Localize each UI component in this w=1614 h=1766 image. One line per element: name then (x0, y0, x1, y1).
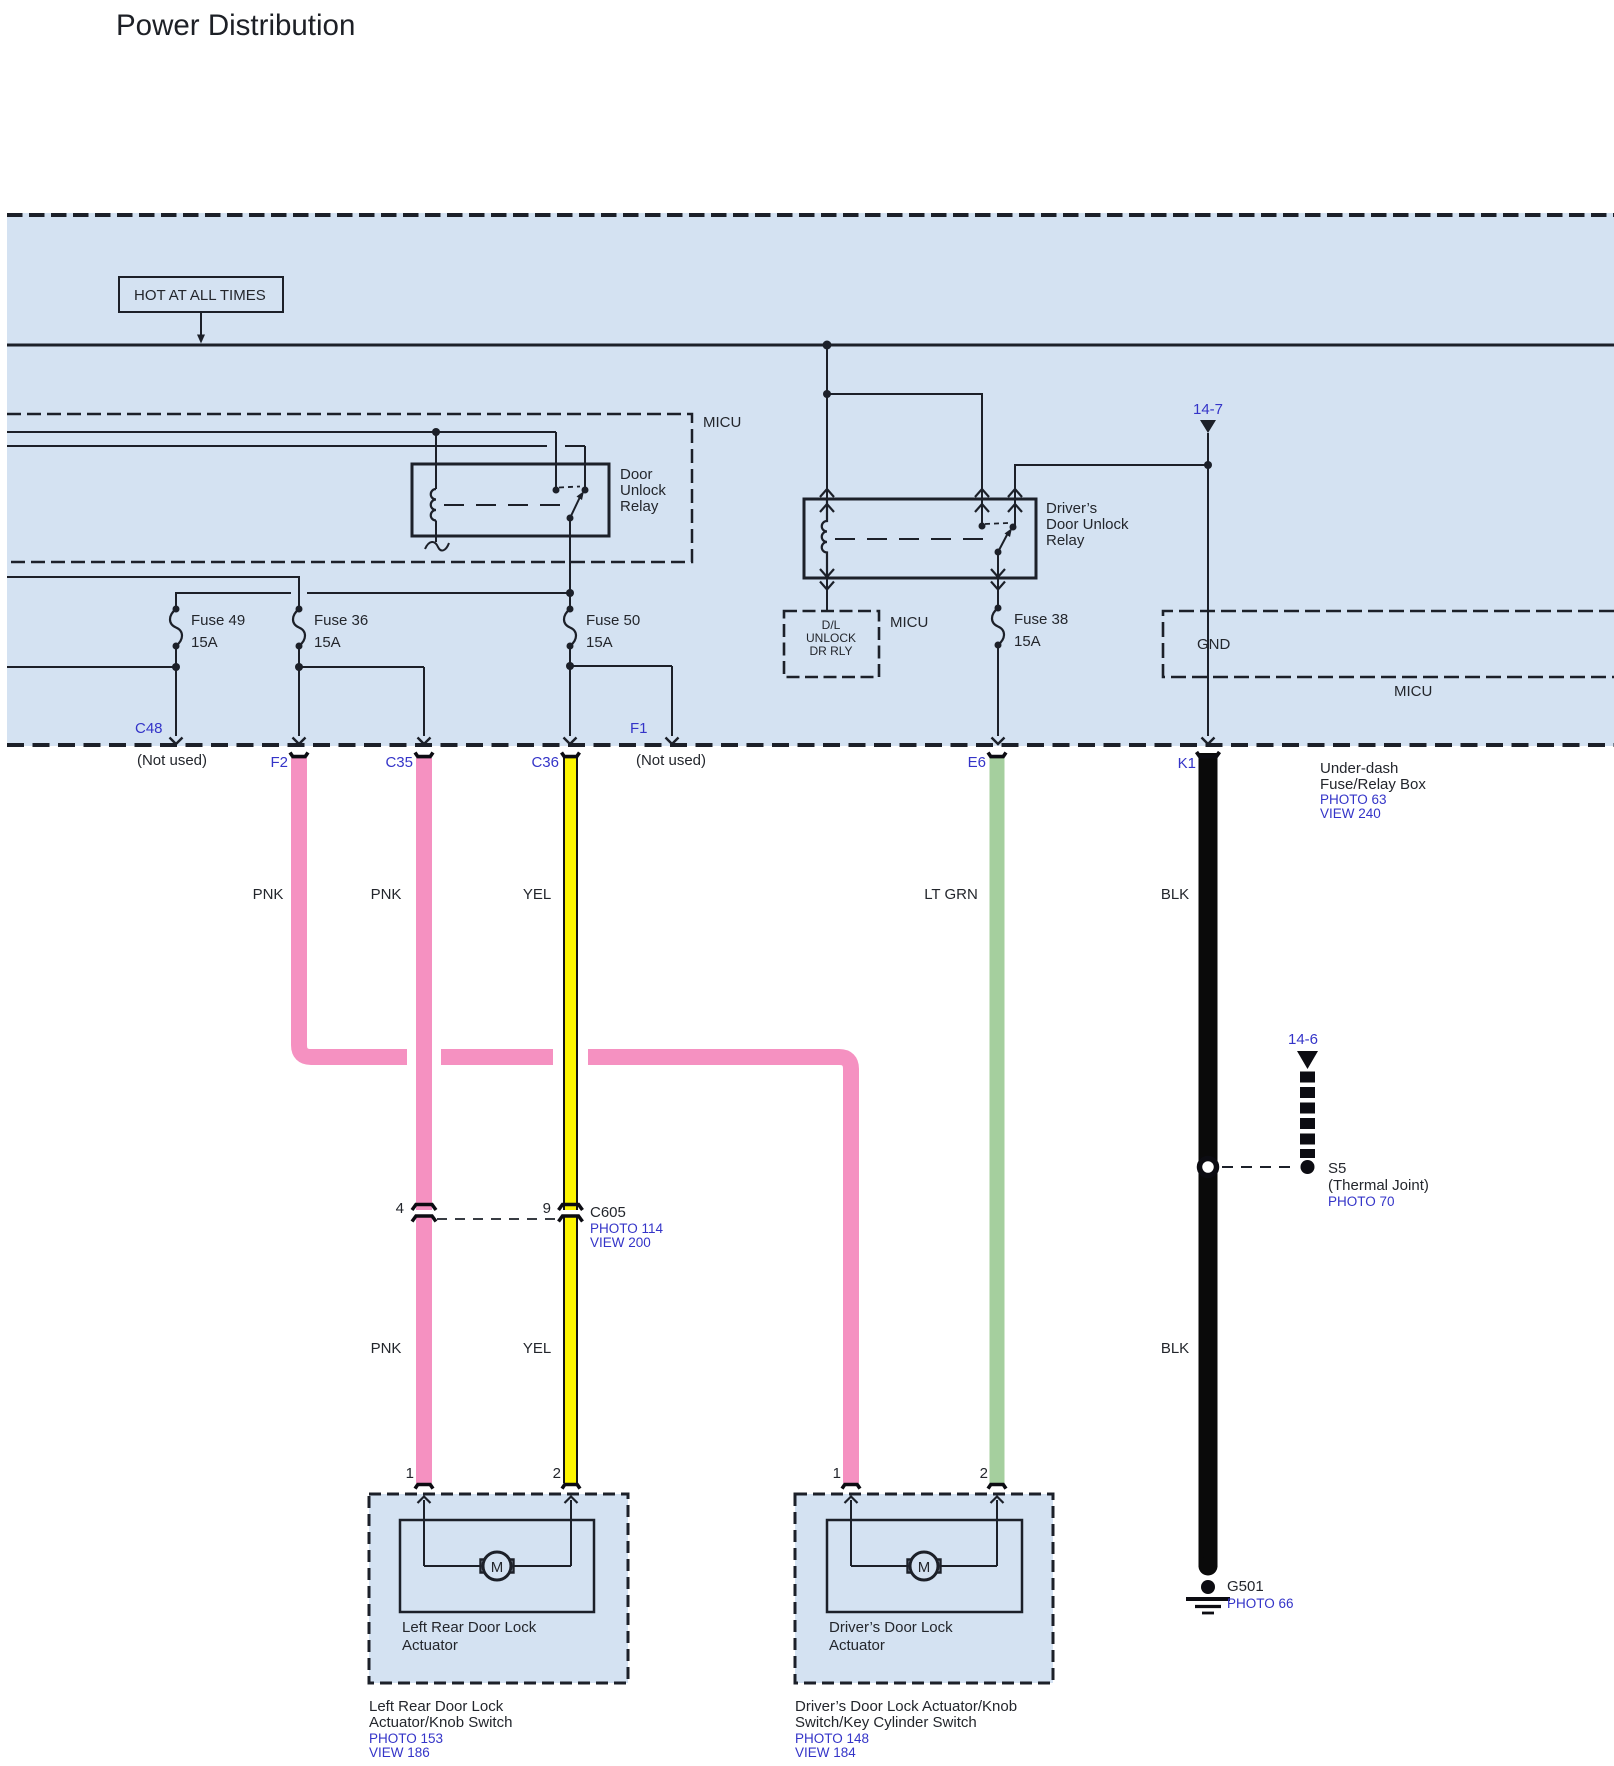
node junction 14-7/GND (1204, 461, 1212, 469)
left actuator pin1 wire (418, 1497, 482, 1567)
svg-text:PHOTO 148: PHOTO 148 (795, 1731, 869, 1746)
svg-text:Under-dash: Under-dash (1320, 760, 1398, 777)
wire down to GND (1207, 465, 1209, 677)
svg-text:PHOTO 153: PHOTO 153 (369, 1731, 443, 1746)
relay output wire down (569, 518, 571, 593)
fuse 49 F49 (170, 606, 182, 650)
svg-text:PHOTO 114: PHOTO 114 (590, 1221, 664, 1236)
svg-text:C48: C48 (135, 720, 163, 737)
svg-text:VIEW 184: VIEW 184 (795, 1745, 856, 1760)
svg-text:14-7: 14-7 (1193, 401, 1223, 418)
fuse 50 F50 (564, 606, 576, 650)
wire relay2 output to Fuse 38 (997, 578, 999, 608)
svg-text:Door Unlock: Door Unlock (1046, 516, 1129, 533)
svg-text:M: M (491, 1559, 504, 1576)
svg-text:15A: 15A (586, 634, 613, 651)
relay mechanical link (dashed) (444, 504, 566, 506)
relay2 contact left (979, 523, 986, 530)
relay2 pivot node (995, 549, 1002, 556)
right actuator caption (795, 1698, 1017, 1760)
C605 dashed link (437, 1218, 556, 1220)
svg-text:MICU: MICU (1394, 683, 1432, 700)
svg-text:Switch/Key Cylinder Switch: Switch/Key Cylinder Switch (795, 1714, 977, 1731)
switch arm arrowhead (577, 491, 585, 500)
svg-text:YEL: YEL (523, 1340, 551, 1357)
svg-text:Left Rear Door Lock: Left Rear Door Lock (402, 1619, 537, 1636)
svg-text:C36: C36 (531, 754, 559, 771)
connector C605 pink half (412, 1205, 436, 1222)
fuse 38 F38 (992, 605, 1004, 649)
relay2 switch arm (998, 533, 1008, 552)
connector cap right pin2 (988, 1485, 1006, 1489)
svg-text:C605: C605 (590, 1204, 626, 1221)
svg-text:15A: 15A (314, 634, 341, 651)
svg-text:VIEW 186: VIEW 186 (369, 1745, 430, 1760)
svg-text:C35: C35 (385, 754, 413, 771)
svg-text:Driver’s Door Lock: Driver’s Door Lock (829, 1619, 953, 1636)
Door Unlock Relay box (412, 464, 609, 536)
relay2 pin chevrons coil (820, 489, 834, 512)
Driver's Door Unlock Relay box (804, 499, 1036, 578)
wire bus to relay2 (826, 345, 828, 394)
black wire BLK from K1 (1199, 753, 1218, 1567)
svg-text:UNLOCK: UNLOCK (806, 631, 856, 645)
connector cup E6 (988, 753, 1006, 757)
svg-text:E6: E6 (968, 754, 986, 771)
svg-text:Fuse 36: Fuse 36 (314, 612, 368, 629)
wire W1 to relay contact (7, 431, 556, 433)
coil ground tail wire (435, 521, 437, 543)
svg-text:PHOTO 66: PHOTO 66 (1227, 1596, 1294, 1611)
svg-text:Actuator: Actuator (829, 1637, 885, 1654)
svg-text:15A: 15A (1014, 633, 1041, 650)
wire E6 drop (992, 645, 1005, 744)
switch pivot node (567, 515, 574, 522)
svg-text:YEL: YEL (523, 886, 551, 903)
coil tail squiggle (425, 542, 449, 551)
svg-text:PNK: PNK (371, 1340, 402, 1357)
relay2 coil (822, 500, 827, 578)
svg-text:F1: F1 (630, 720, 648, 737)
Under-dash Fuse/Relay Box caption (1320, 760, 1426, 821)
wire A feeding Fuse 36 (7, 577, 299, 609)
svg-text:S5: S5 (1328, 1160, 1346, 1177)
GND dashed box (1163, 611, 1614, 677)
svg-text:Fuse 38: Fuse 38 (1014, 611, 1068, 628)
right motor M2 (908, 1552, 941, 1580)
D/L UNLOCK DR RLY dashed box (784, 611, 879, 677)
D/L UNLOCK DR RLY label (806, 618, 856, 658)
Driver's Door Unlock Relay label (1046, 500, 1129, 549)
S5 dashed link (1222, 1166, 1294, 1168)
wire B continued to Fuse 50 (307, 592, 570, 594)
wire 14-7 to relay2 pin (1015, 465, 1208, 526)
ground G501 symbol (1186, 1599, 1230, 1613)
svg-text:Left Rear Door Lock: Left Rear Door Lock (369, 1698, 504, 1715)
svg-text:LT GRN: LT GRN (924, 886, 978, 903)
relay2 arm arrowhead (1005, 528, 1013, 537)
svg-text:Fuse/Relay Box: Fuse/Relay Box (1320, 776, 1426, 793)
relay2 throw dashed link (985, 523, 1008, 524)
connector cup C35 (415, 753, 433, 757)
connector cap right pin1 (842, 1485, 860, 1489)
left actuator pin2 wire (513, 1497, 578, 1567)
relay2 output wire (997, 552, 999, 578)
relay2 mechanical link (dashed) (835, 538, 988, 540)
wire W2 continued (565, 445, 585, 447)
arrow from HOT box to bus (197, 312, 205, 344)
pink wire PNK from C35 (to left rear actuator pin 1) (416, 758, 432, 1483)
connector cap left pin2 (562, 1485, 580, 1489)
svg-text:1: 1 (406, 1465, 414, 1482)
svg-text:2: 2 (980, 1465, 988, 1482)
relay2 pin chevrons contact1 (975, 489, 989, 512)
Door Unlock Relay label (620, 466, 666, 515)
wire W1 vertical drop (555, 432, 557, 490)
svg-text:VIEW 200: VIEW 200 (590, 1235, 651, 1250)
pink wire PNK from F2 (to driver's actuator pin 1) (299, 758, 851, 1483)
relay2 pin chevrons contact2 (1008, 489, 1022, 512)
svg-text:Unlock: Unlock (620, 482, 666, 499)
wire K1 drop (1207, 677, 1209, 736)
node junction below Fuse 36 (295, 663, 303, 671)
wire C36 below Fuse 50 (564, 646, 577, 744)
svg-text:9: 9 (543, 1200, 551, 1217)
14-6 ladder wire (1300, 1072, 1315, 1159)
wire W2 to relay contact (7, 445, 547, 447)
svg-text:HOT AT ALL TIMES: HOT AT ALL TIMES (134, 287, 266, 304)
relay2 contact right (1010, 524, 1017, 531)
svg-text:BLK: BLK (1161, 1340, 1189, 1357)
ground G501 dot (1201, 1580, 1215, 1594)
svg-text:2: 2 (553, 1465, 561, 1482)
wire E to F1 (570, 666, 679, 744)
right actuator name in box (829, 1619, 953, 1654)
right actuator pin1 wire (845, 1497, 909, 1567)
14-7 page connector triangle (1200, 420, 1216, 433)
svg-text:(Thermal Joint): (Thermal Joint) (1328, 1177, 1429, 1194)
wire C48 branch (7, 646, 183, 744)
svg-text:Actuator/Knob Switch: Actuator/Knob Switch (369, 1714, 512, 1731)
node junction bus/relay2 (823, 341, 832, 350)
left actuator inner box (400, 1520, 594, 1612)
left actuator caption (369, 1698, 512, 1760)
svg-text:MICU: MICU (703, 414, 741, 431)
left motor M1 (481, 1552, 514, 1580)
svg-text:Relay: Relay (1046, 532, 1085, 549)
fuse box bottom dashed border (7, 743, 1614, 747)
MICU dashed box (left) (7, 414, 692, 562)
wire from 14-7 (1207, 433, 1209, 465)
wire coil to D/L box (826, 578, 828, 611)
svg-text:(Not used): (Not used) (636, 752, 706, 769)
connector cup C36 (562, 753, 580, 757)
svg-text:1: 1 (833, 1465, 841, 1482)
wire W2 vertical drop (584, 446, 586, 490)
wire relay2 coil pin (826, 394, 828, 500)
svg-text:(Not used): (Not used) (137, 752, 207, 769)
svg-text:PHOTO 70: PHOTO 70 (1328, 1194, 1395, 1209)
connector C605 yellow half (559, 1205, 583, 1222)
relay coil (431, 489, 436, 521)
svg-text:Door: Door (620, 466, 653, 483)
svg-text:PNK: PNK (371, 886, 402, 903)
svg-text:4: 4 (396, 1200, 404, 1217)
wire F2 branch from Fuse 36 (293, 646, 306, 744)
svg-text:M: M (918, 1559, 931, 1576)
svg-text:GND: GND (1197, 636, 1231, 653)
wire B Fuse49 top branch (176, 593, 291, 609)
yellow wire YEL from C36 outline (563, 758, 578, 1483)
HOT AT ALL TIMES label box (119, 277, 283, 312)
fuse box top dashed border (7, 213, 1614, 217)
yellow wire YEL fill (565, 758, 576, 1483)
svg-text:K1: K1 (1178, 755, 1196, 772)
svg-text:DR RLY: DR RLY (809, 644, 852, 658)
green wire LT GRN from E6 (990, 758, 1005, 1483)
relay2 bottom chevrons coil (820, 569, 834, 590)
svg-text:G501: G501 (1227, 1578, 1264, 1595)
connector cup F2 (290, 753, 308, 757)
relay contact right (582, 487, 589, 494)
relay coil feed wire (435, 432, 437, 489)
contact throw dashed link (559, 487, 580, 488)
connector cup K1 (1197, 752, 1220, 757)
relay2 bottom chevrons output (991, 569, 1005, 590)
relay contact left (553, 487, 560, 494)
S5 junction dot (1301, 1160, 1315, 1174)
node above Fuse 50 (566, 589, 574, 597)
svg-text:Driver’s: Driver’s (1046, 500, 1097, 517)
svg-text:D/L: D/L (822, 618, 841, 632)
svg-text:Actuator: Actuator (402, 1637, 458, 1654)
node junction below Fuse 50 (566, 662, 574, 670)
svg-text:PHOTO 63: PHOTO 63 (1320, 792, 1387, 807)
svg-text:Fuse 50: Fuse 50 (586, 612, 640, 629)
svg-text:Power Distribution: Power Distribution (116, 9, 355, 42)
svg-text:F2: F2 (270, 754, 288, 771)
S5 splice node on BLK wire (1200, 1159, 1217, 1176)
svg-text:BLK: BLK (1161, 886, 1189, 903)
Under-dash Fuse/Relay Box (blue block) (7, 213, 1614, 746)
wire D to C35 (299, 667, 431, 744)
wire into Fuse 50 (569, 593, 571, 609)
svg-text:Driver’s Door Lock Actuator/Kn: Driver’s Door Lock Actuator/Knob (795, 1698, 1017, 1715)
node junction W1/coil (432, 428, 440, 436)
wire to relay2 contact pin (827, 394, 982, 526)
right actuator pin2 wire (940, 1497, 1004, 1567)
14-6 page connector triangle (1297, 1051, 1318, 1069)
svg-text:14-6: 14-6 (1288, 1031, 1318, 1048)
main power bus wire (7, 344, 1614, 347)
relay switch arm (570, 497, 580, 518)
svg-text:VIEW 240: VIEW 240 (1320, 806, 1381, 821)
node junction relay2 feed (823, 390, 831, 398)
right actuator inner box (827, 1520, 1022, 1612)
svg-text:PNK: PNK (253, 886, 284, 903)
connector cap left pin1 (415, 1485, 433, 1489)
Driver's Door Lock Actuator dashed box (795, 1494, 1053, 1683)
fuse 36 F36 (293, 606, 305, 650)
svg-text:15A: 15A (191, 634, 218, 651)
left actuator name in box (402, 1619, 537, 1654)
svg-text:Relay: Relay (620, 498, 659, 515)
svg-text:Fuse 49: Fuse 49 (191, 612, 245, 629)
Left Rear Door Lock Actuator dashed box (369, 1494, 628, 1683)
svg-text:MICU: MICU (890, 614, 928, 631)
